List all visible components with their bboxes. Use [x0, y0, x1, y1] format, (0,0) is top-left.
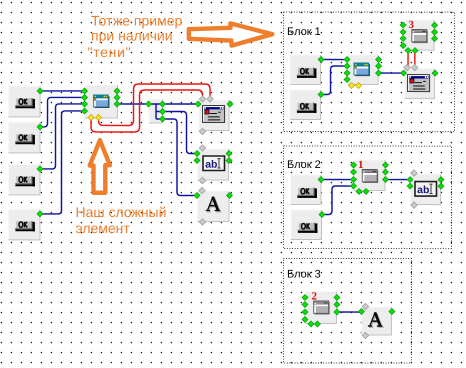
- block2 node W2 in1: [407, 177, 413, 183]
- node U5 bottom (gray): [199, 219, 206, 226]
- panel edit node U4: [197, 148, 229, 180]
- panel OK3: [8, 164, 41, 196]
- annotation text: Наш сложный элемент: [75, 204, 166, 236]
- block3 letter A icon X2: [368, 312, 384, 327]
- node U3 top A (gray): [199, 96, 206, 103]
- block1 node V2 out2: [432, 29, 438, 35]
- annotation right arrow: [189, 23, 273, 45]
- node U1 out2: [114, 94, 120, 100]
- node U3 in: [195, 101, 201, 107]
- node U2 out3: [160, 116, 166, 122]
- wire OK4 to U1 input 4: [40, 111, 85, 214]
- block2 node W1 event2: [363, 189, 369, 195]
- node U4 top (gray): [199, 145, 206, 152]
- block1 node V1 in1: [344, 57, 350, 63]
- block1 node OK2 out: [318, 92, 324, 98]
- edit box icon U4: [203, 156, 225, 171]
- node U4 out2: [226, 157, 232, 163]
- block1 red wire V2 event1 to V3: [407, 51, 409, 67]
- panel label node U5: [197, 190, 230, 222]
- splitter internal wiring: [149, 104, 163, 119]
- block3 node X2 top (gray): [362, 303, 369, 310]
- svg-text:2: 2: [311, 291, 317, 303]
- wire U2 output 1 to form U3: [163, 103, 199, 105]
- svg-text:Блок 2: Блок 2: [287, 159, 321, 171]
- block2 wire W1 to W2: [386, 179, 411, 181]
- wire OK1 to U1 input 1: [40, 90, 84, 92]
- block1 button OK2: [297, 102, 317, 113]
- block 2 dashed border: [283, 146, 451, 249]
- node U4 out1: [226, 150, 232, 156]
- block1 node V2 in2: [400, 29, 406, 35]
- svg-text:Блок 3: Блок 3: [287, 269, 321, 281]
- blue window icon U1: [93, 94, 109, 108]
- node U1 event1 (yellow): [88, 114, 94, 120]
- annotation text: Тотже пример при наличии "тени": [88, 12, 183, 60]
- block3 node X1 in2: [302, 302, 308, 308]
- block2 node OK1 out: [318, 177, 324, 183]
- svg-text:элемент: элемент: [75, 220, 130, 236]
- block3 node X1 out3: [334, 309, 340, 315]
- block3 node X1 in4: [302, 317, 308, 323]
- block1 panel shadow node V2: [403, 20, 435, 51]
- block 3 dashed border: [283, 259, 411, 364]
- wire OK3 to U1 input 3: [40, 104, 85, 169]
- node U1 out1: [114, 88, 120, 94]
- node U1 in3: [82, 101, 88, 107]
- panel OK2: [8, 122, 41, 154]
- block2 node W2 top (gray): [411, 170, 418, 177]
- node OK4 out: [37, 211, 43, 217]
- block1 node V2 in1: [400, 22, 406, 28]
- node OK2 out: [37, 124, 43, 130]
- panel OK4: [8, 209, 41, 241]
- node U1 event2 (yellow): [96, 114, 102, 120]
- block1 wire OK1 to V1: [321, 59, 347, 61]
- wire OK2 to U1 input 2: [40, 97, 85, 127]
- block1 node V1 in4: [344, 77, 350, 83]
- svg-text:Наш сложный: Наш сложный: [75, 204, 166, 220]
- block2 wire OK1 to W1: [321, 179, 354, 181]
- block2 node W2 bottom (gray): [411, 202, 418, 209]
- panel OK1: [8, 86, 41, 118]
- block3 gray window icon X1: [313, 301, 329, 315]
- block2 node W1 in2: [351, 169, 357, 175]
- block1 node V3 top B (gray): [411, 64, 418, 71]
- block1 button OK1: [297, 67, 317, 78]
- node U1 out3: [114, 101, 120, 107]
- block3 node X1 out1: [334, 295, 340, 301]
- block2 node W1 out1: [383, 162, 389, 168]
- block1 node V1 in3: [344, 70, 350, 76]
- block1 node V2 in3: [400, 36, 406, 42]
- node U3 top B (gray): [207, 96, 214, 103]
- block1 node V1 out3: [376, 70, 382, 76]
- block 1 dashed border: [284, 12, 455, 132]
- block1 panel OK1: [290, 55, 322, 86]
- block2 edit box icon W2: [415, 182, 437, 197]
- block3 node X1 event2: [314, 321, 320, 327]
- block1 gray window icon V2: [411, 29, 427, 43]
- block1 panel form node V3: [404, 68, 435, 99]
- block1 wire OK2 to V1: [321, 66, 347, 95]
- letter A icon U5: [206, 197, 222, 212]
- svg-text:"тени": "тени": [88, 44, 132, 60]
- wire U2 output 3 to label U5: [162, 119, 197, 196]
- block1 node V1 out2: [376, 63, 382, 69]
- block3 node X1 out2: [334, 302, 340, 308]
- panel splitter node U2: [149, 98, 164, 123]
- form icon U3: [203, 105, 226, 122]
- node U1 in1: [82, 88, 88, 94]
- block1 node V2 out3: [432, 36, 438, 42]
- node OK1 out: [37, 88, 43, 94]
- svg-text:Блок 1: Блок 1: [287, 26, 321, 38]
- block1 node V2 event1: [405, 48, 411, 54]
- block1 blue window icon V1: [354, 63, 370, 77]
- block3 node X1 event1: [308, 321, 314, 327]
- block2 node W1 out2: [383, 169, 389, 175]
- block3 node X2 bottom (gray): [362, 332, 369, 339]
- node U4 in1: [194, 150, 200, 156]
- wire U1 output 3 to splitter U2: [117, 103, 148, 105]
- block2 panel edit node W2: [410, 174, 441, 206]
- node U1 in4: [82, 108, 88, 114]
- wire U2 output 2 to edit U4: [163, 111, 198, 153]
- block2 node W2 out1: [438, 177, 444, 183]
- node U4 in2: [194, 157, 200, 163]
- node U3 out: [227, 101, 233, 107]
- panel central window node U1: [84, 84, 118, 118]
- block3 node X2 in: [358, 309, 364, 315]
- svg-text:Тотже пример: Тотже пример: [91, 12, 182, 28]
- block1 node V3 in: [401, 70, 407, 76]
- block2 wire OK2 to W1: [322, 186, 354, 215]
- annotation up arrow: [90, 140, 110, 193]
- node OK3 out: [37, 166, 43, 172]
- svg-text:1: 1: [358, 159, 364, 171]
- block1 form icon V3: [408, 75, 431, 92]
- block1 node V1 out1: [376, 57, 382, 63]
- red wire U1 event 1 to U3 input A: [91, 90, 203, 132]
- node U3 bottom (gray): [199, 128, 206, 135]
- node U4 bottom (gray): [199, 177, 206, 184]
- block1 node V2 in4: [400, 43, 406, 49]
- block1 node V1 event2 (yellow): [356, 83, 362, 89]
- block2 node W1 event1: [356, 189, 362, 195]
- block2 node W1 in1: [351, 162, 357, 168]
- block1 node OK1 out: [318, 57, 324, 63]
- block2 node W1 in4: [350, 183, 356, 189]
- block2 node OK2 out: [319, 212, 325, 218]
- block3 node X1 in1: [302, 295, 308, 301]
- block1 panel window node V1: [347, 55, 379, 86]
- block3 node X1 in3: [302, 309, 308, 315]
- node U2 out2: [160, 108, 166, 114]
- button OK3: [15, 175, 35, 186]
- block1 node V2 out1: [432, 22, 438, 28]
- red wire U1 event 2 to U3 input B: [99, 84, 211, 126]
- node U1 in2: [82, 94, 88, 100]
- block1 node V1 in2: [344, 63, 350, 69]
- block1 panel OK2: [290, 90, 322, 121]
- block3 panel label node X2: [361, 307, 392, 336]
- block3 wire X1 to X2: [337, 311, 362, 313]
- block2 button OK2: [298, 222, 318, 233]
- node U2 out1: [160, 101, 166, 107]
- block2 node W2 in2: [407, 183, 413, 189]
- node U5 top (gray): [199, 187, 206, 194]
- block1 node V3 top A (gray): [404, 64, 411, 71]
- block3 node X2 out: [389, 309, 395, 315]
- block1 node V3 out: [432, 70, 438, 76]
- button OK2: [15, 133, 35, 144]
- node U2 in: [146, 101, 152, 107]
- svg-text:ab: ab: [205, 159, 217, 171]
- block2 node W1 out3: [383, 177, 389, 183]
- block2 panel OK1: [290, 175, 322, 206]
- block1 red wire V2 event2 to V3: [414, 51, 416, 67]
- button OK4: [15, 220, 35, 231]
- block2 node W2 out2: [438, 183, 444, 189]
- block2 button OK1: [297, 187, 317, 198]
- block3 panel shadow node X1: [305, 291, 337, 324]
- block2 gray window icon W1: [362, 169, 378, 183]
- svg-text:при наличии: при наличии: [91, 27, 173, 43]
- panel form node U3: [199, 99, 230, 131]
- svg-text:3: 3: [409, 19, 415, 31]
- block2 node W1 in3: [351, 177, 357, 183]
- block1 node V2 event2: [412, 48, 418, 54]
- svg-text:ab: ab: [417, 184, 429, 196]
- button OK1: [15, 97, 35, 108]
- block2 panel shadow node W1: [353, 160, 385, 192]
- block2 panel OK2: [290, 210, 322, 241]
- node U5 out: [226, 192, 232, 198]
- node U5 in: [194, 192, 200, 198]
- block1 node V1 event1 (yellow): [349, 83, 355, 89]
- block1 wire V1 to V3: [379, 72, 404, 74]
